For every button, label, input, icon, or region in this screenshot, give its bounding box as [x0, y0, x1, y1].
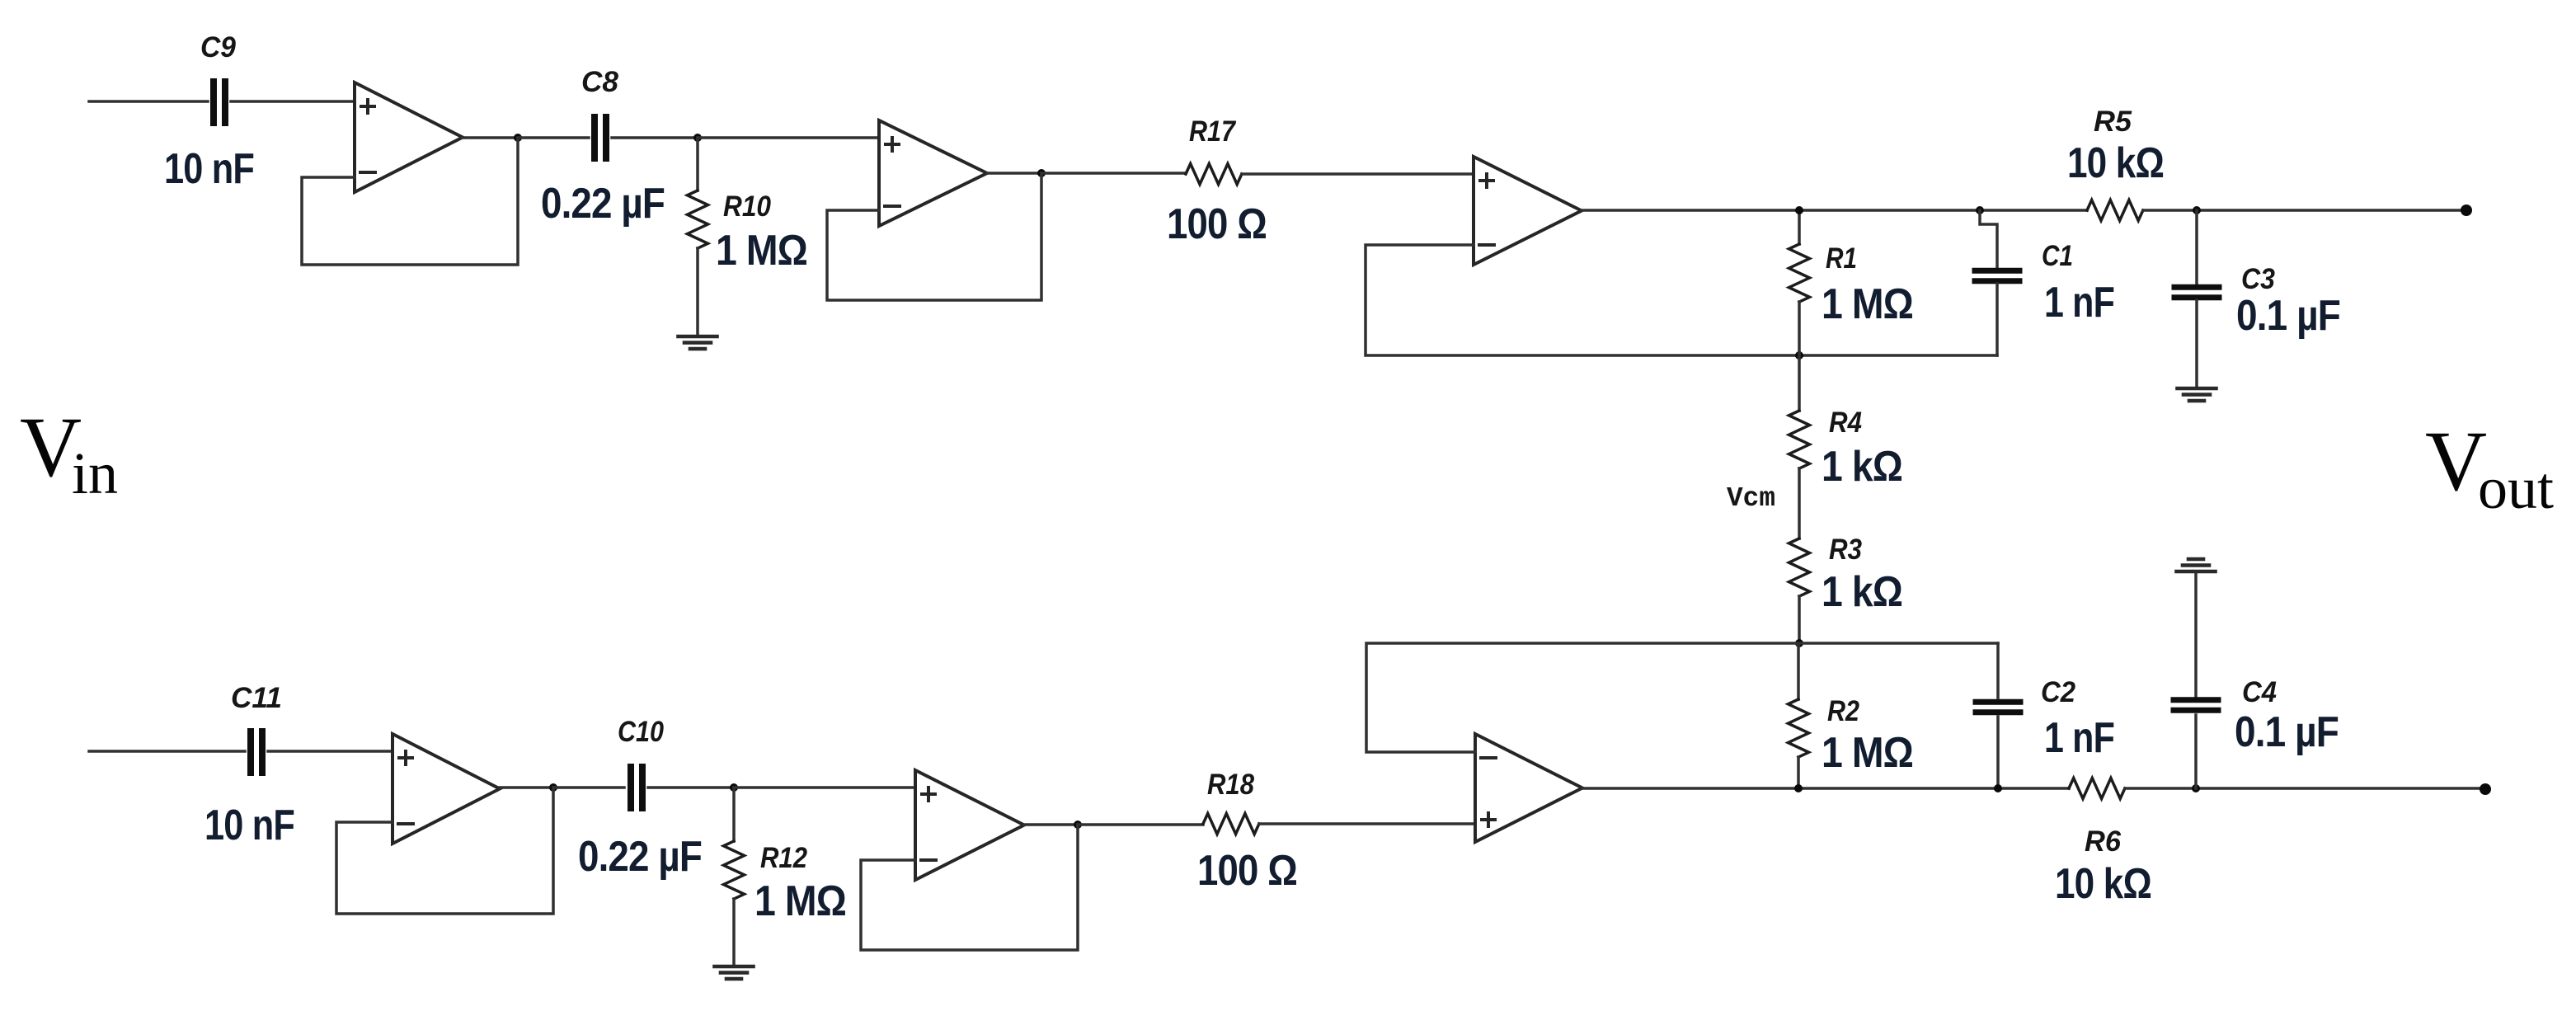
svg-text:C2: C2 [2041, 676, 2075, 708]
capacitor C8 [595, 117, 606, 158]
svg-text:R1: R1 [1826, 242, 1857, 275]
resistor R10 [688, 190, 708, 248]
node U1 output junction [514, 134, 522, 142]
node C2 bottom junction [1994, 784, 2002, 792]
capacitor C2 [1976, 702, 2020, 712]
svg-text:C4: C4 [2242, 676, 2277, 708]
svg-text:R18: R18 [1207, 769, 1254, 801]
resistor R1 lead bottom [1798, 302, 1801, 355]
resistor R10 lead bottom [696, 248, 699, 336]
wire node to U6 input [734, 786, 915, 789]
ground below C3 [2178, 388, 2216, 401]
capacitor C1 top lead [1980, 210, 1997, 268]
node C1 top junction [1976, 206, 1984, 214]
node C4 bottom junction [2192, 784, 2200, 792]
wire node Vcm [1798, 468, 1801, 538]
svg-text:Vcm: Vcm [1727, 483, 1775, 514]
svg-text:1 MΩ: 1 MΩ [1822, 729, 1913, 777]
svg-text:R6: R6 [2085, 825, 2122, 858]
resistor R12 lead top [732, 788, 736, 841]
node U5 output junction [549, 783, 557, 792]
svg-text:10 nF: 10 nF [204, 802, 294, 849]
wire U6 to R18 [1078, 823, 1203, 826]
resistor R4 [1789, 411, 1810, 468]
svg-text:C11: C11 [231, 682, 282, 714]
resistor R6 [2069, 778, 2125, 799]
wire C9 to U1 [231, 100, 355, 103]
wire R6 to output [2125, 787, 2485, 790]
resistor R4 lead top [1798, 355, 1801, 411]
resistor R12 [724, 841, 745, 899]
resistor R18 [1203, 814, 1259, 835]
svg-text:0.22 µF: 0.22 µF [541, 180, 665, 228]
node R10 top junction [693, 134, 702, 142]
op-amp U6 [915, 770, 1024, 880]
node U6 output junction [1074, 821, 1082, 829]
svg-text:R2: R2 [1827, 695, 1859, 727]
wire U2 output [987, 172, 1041, 175]
capacitor C3 top lead [2195, 210, 2198, 284]
wire C11 to U5 [268, 750, 393, 753]
wire U2 to R17 [1041, 172, 1186, 175]
svg-text:1 MΩ: 1 MΩ [716, 227, 807, 275]
op-amp U1 [355, 82, 463, 192]
op-amp U2 [879, 120, 987, 226]
resistor R12 lead bottom [732, 899, 736, 966]
svg-text:1 nF: 1 nF [2044, 279, 2114, 327]
capacitor C1 [1975, 270, 2019, 281]
node R2 bottom junction [1794, 784, 1803, 792]
resistor R1 [1789, 244, 1810, 302]
wire U3 output rail [1582, 209, 2087, 212]
wire U2 feedback loop [827, 173, 1041, 300]
wire bottom input [89, 750, 245, 753]
wire U6 output [1024, 823, 1078, 826]
resistor R3 lead bottom [1798, 596, 1801, 643]
svg-text:R10: R10 [723, 190, 771, 223]
op-amp U3 [1474, 157, 1582, 265]
node R1 top junction [1795, 206, 1803, 214]
svg-text:1 kΩ: 1 kΩ [1822, 443, 1902, 491]
ground below R10 [679, 336, 717, 349]
svg-text:1 kΩ: 1 kΩ [1822, 568, 1902, 616]
svg-text:100 Ω: 100 Ω [1167, 200, 1267, 248]
op-amp U5 [393, 734, 500, 844]
svg-text:10 nF: 10 nF [164, 145, 254, 193]
svg-text:0.1 µF: 0.1 µF [2236, 292, 2340, 340]
capacitor C3 [2174, 287, 2219, 298]
wire U5 output [500, 786, 553, 789]
wire U7 feedback to top rail [1366, 643, 1998, 752]
svg-text:in: in [72, 440, 118, 506]
wire U5 feedback loop [336, 788, 553, 914]
wire junction to C8 [518, 136, 589, 139]
capacitor C9 [214, 82, 225, 123]
wire top input [89, 100, 208, 103]
wire U1 feedback loop [302, 138, 518, 265]
resistor R1 lead top [1798, 210, 1801, 244]
ground above C4 [2177, 559, 2216, 571]
svg-text:C10: C10 [618, 716, 664, 748]
capacitor C4 top lead [2194, 572, 2198, 698]
wire C10 to node [648, 786, 734, 789]
capacitor C4 [2174, 700, 2218, 711]
wire R17 to U3 [1242, 172, 1474, 176]
resistor R2 lead top [1797, 643, 1800, 699]
svg-text:1 MΩ: 1 MΩ [1822, 280, 1913, 328]
wire U6 feedback loop [861, 825, 1078, 950]
resistor R3 [1789, 538, 1810, 596]
wire U7 output rail [1582, 787, 2069, 790]
wire C8 to node [612, 136, 698, 139]
resistor R10 lead top [696, 138, 699, 190]
ground below R12 [715, 966, 754, 979]
svg-text:C9: C9 [200, 31, 237, 63]
resistor R17 [1186, 164, 1242, 185]
capacitor C2 bottom lead [1996, 717, 2000, 788]
capacitor C11 [251, 731, 262, 773]
wire U1 output [463, 136, 518, 139]
svg-text:0.1 µF: 0.1 µF [2235, 708, 2339, 756]
svg-text:1 nF: 1 nF [2044, 714, 2114, 762]
resistor R2 lead bottom [1797, 757, 1800, 788]
terminal Vout bottom [2480, 783, 2491, 795]
resistor R5 [2087, 200, 2143, 221]
node C3 top junction [2193, 206, 2201, 214]
node R2 top junction [1795, 639, 1803, 647]
node R12 top junction [730, 783, 738, 792]
capacitor C10 [631, 767, 642, 808]
svg-text:C8: C8 [581, 66, 619, 98]
op-amp U7 [1475, 734, 1582, 842]
node U2 output junction [1037, 169, 1046, 177]
wire R5 to output [2143, 209, 2466, 212]
svg-text:1 MΩ: 1 MΩ [754, 877, 846, 925]
svg-text:R4: R4 [1829, 407, 1862, 439]
capacitor C4 bottom lead [2194, 715, 2198, 788]
svg-text:out: out [2478, 455, 2554, 521]
svg-text:10 kΩ: 10 kΩ [2055, 860, 2151, 908]
capacitor C3 bottom lead [2195, 300, 2198, 388]
capacitor C2 top lead [1996, 643, 2000, 698]
wire node to U2 input [698, 136, 879, 139]
node R1 bottom junction [1795, 351, 1803, 360]
svg-text:R5: R5 [2094, 106, 2132, 138]
svg-text:R3: R3 [1829, 534, 1862, 566]
svg-text:100 Ω: 100 Ω [1197, 847, 1297, 895]
svg-text:R12: R12 [760, 842, 807, 874]
terminal Vout top [2461, 205, 2472, 216]
wire U3 feedback to bottom rail [1366, 245, 1997, 355]
svg-text:C3: C3 [2241, 263, 2275, 295]
svg-text:C1: C1 [2042, 240, 2073, 272]
wire junction to C10 [553, 786, 624, 789]
resistor R2 [1789, 699, 1809, 757]
svg-text:0.22 µF: 0.22 µF [578, 833, 702, 881]
svg-text:10 kΩ: 10 kΩ [2067, 139, 2164, 187]
capacitor C1 bottom lead [1995, 284, 1999, 355]
svg-text:R17: R17 [1189, 115, 1236, 148]
wire R18 to U7 [1259, 822, 1475, 825]
